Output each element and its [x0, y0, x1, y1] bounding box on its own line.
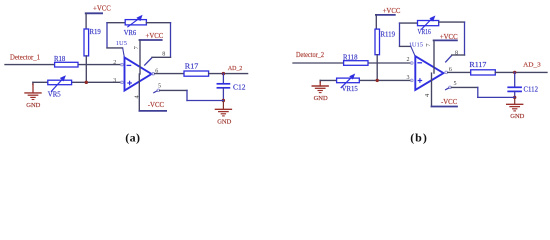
svg-text:R19: R19: [90, 29, 102, 36]
svg-text:4: 4: [424, 93, 431, 97]
svg-text:VR6: VR6: [124, 30, 137, 37]
svg-text:2: 2: [113, 60, 116, 66]
svg-text:GND: GND: [314, 95, 328, 102]
svg-text:6: 6: [449, 67, 452, 73]
svg-text:5: 5: [158, 83, 161, 89]
svg-text:R17: R17: [185, 64, 199, 71]
svg-text:GND: GND: [26, 102, 40, 109]
svg-text:8: 8: [455, 50, 458, 56]
svg-text:R119: R119: [381, 31, 396, 38]
svg-text:1U15: 1U15: [409, 41, 423, 48]
svg-text:8: 8: [162, 51, 165, 57]
svg-text:R118: R118: [343, 55, 358, 62]
svg-text:-VCC: -VCC: [148, 102, 165, 109]
svg-text:(a): (a): [125, 131, 140, 145]
svg-text:GND: GND: [510, 113, 524, 120]
svg-text:+VCC: +VCC: [383, 8, 401, 15]
svg-text:AD_3: AD_3: [523, 62, 541, 69]
svg-text:GND: GND: [217, 118, 231, 125]
svg-text:R117: R117: [469, 62, 487, 69]
svg-text:5: 5: [454, 81, 457, 87]
svg-text:VR16: VR16: [418, 29, 432, 36]
svg-text:C12: C12: [233, 85, 246, 92]
svg-text:R18: R18: [54, 56, 66, 63]
svg-text:(b): (b): [410, 130, 428, 144]
svg-text:AD_2: AD_2: [228, 65, 243, 72]
svg-text:-VCC: -VCC: [441, 99, 458, 106]
svg-text:VR15: VR15: [342, 86, 359, 93]
svg-text:2: 2: [407, 57, 410, 63]
svg-text:3: 3: [113, 78, 116, 84]
svg-text:C112: C112: [524, 87, 539, 94]
svg-text:+VCC: +VCC: [93, 6, 111, 13]
svg-text:Detector_2: Detector_2: [296, 50, 324, 59]
svg-text:7: 7: [425, 43, 432, 47]
svg-text:Detector_1: Detector_1: [10, 53, 40, 62]
svg-text:7: 7: [133, 45, 140, 49]
svg-text:3: 3: [407, 75, 410, 81]
svg-text:+VCC: +VCC: [146, 33, 164, 40]
svg-text:1U5: 1U5: [116, 40, 127, 47]
svg-text:VR5: VR5: [48, 91, 61, 98]
svg-text:6: 6: [155, 68, 158, 74]
